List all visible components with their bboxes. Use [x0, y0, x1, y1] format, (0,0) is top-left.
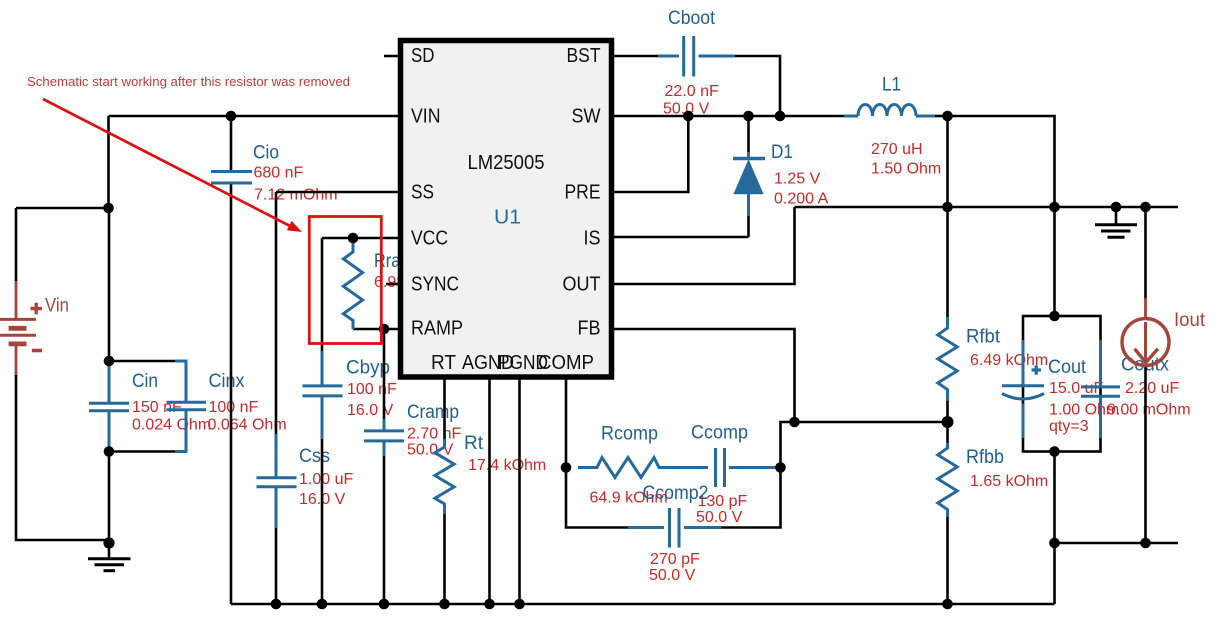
wire VCC horizontal: [322, 237, 400, 240]
svg-text:SD: SD: [411, 45, 435, 67]
node comp right: [775, 462, 786, 473]
svg-text:1.50 Ohm: 1.50 Ohm: [871, 161, 941, 178]
battery plus sign: [31, 303, 43, 314]
node Cin top: [104, 356, 115, 367]
wire ground rail: [231, 603, 1055, 606]
wire RT pin riser: [443, 377, 446, 441]
current source Iout symbol: [1122, 298, 1169, 366]
node SW/D1: [743, 111, 754, 122]
svg-text:BST: BST: [567, 45, 601, 67]
node Vout/Iout: [1140, 202, 1151, 213]
wire divider top: [946, 116, 949, 319]
capacitor Ccomp plates: [716, 448, 725, 487]
battery lead bottom: [15, 346, 18, 375]
capacitor Css plates: [257, 478, 297, 487]
wire FB pin jog: [610, 329, 795, 422]
capacitor Cin leads: [108, 361, 111, 452]
capacitor Ccomp2 plates: [670, 508, 680, 548]
capacitor Cinx plates: [167, 402, 207, 410]
svg-text:qty=3: qty=3: [1049, 418, 1089, 435]
node COMP: [561, 462, 572, 473]
wire Cinx top link: [109, 360, 177, 363]
node FB jog: [789, 417, 800, 428]
wire Css riser upper: [275, 192, 278, 436]
svg-text:Cramp: Cramp: [407, 402, 459, 423]
wire divider mid upper: [946, 399, 949, 423]
svg-text:50.0 V: 50.0 V: [407, 442, 454, 459]
wire Cin lower vertical: [108, 451, 111, 544]
svg-text:22.0 nF: 22.0 nF: [665, 83, 719, 100]
Iout lead top: [1144, 298, 1147, 318]
svg-text:50.0 V: 50.0 V: [696, 509, 743, 526]
capacitor bank box outline: [1023, 316, 1101, 452]
svg-text:Rcomp: Rcomp: [601, 424, 658, 445]
diode D1 cathode bar: [733, 157, 765, 160]
pin stub SYNC: [386, 283, 400, 286]
svg-text:1.00 uF: 1.00 uF: [299, 471, 353, 488]
svg-text:SS: SS: [411, 182, 434, 204]
capacitor Cboot plates: [684, 36, 694, 77]
svg-text:9.00 mOhm: 9.00 mOhm: [1107, 402, 1191, 419]
diode D1 blue leads: [747, 152, 750, 216]
inductor L1: [844, 105, 935, 116]
svg-text:16.0 V: 16.0 V: [347, 402, 394, 419]
svg-text:COMP: COMP: [538, 352, 594, 374]
svg-text:0.024 Ohm: 0.024 Ohm: [132, 417, 211, 434]
resistor Rramp: [343, 238, 362, 329]
capacitor Cramp plates: [364, 431, 404, 441]
wire L1 right to output node: [933, 115, 948, 118]
svg-text:2.20 uF: 2.20 uF: [1125, 380, 1179, 397]
svg-text:17.4 kOhm: 17.4 kOhm: [468, 457, 546, 474]
node battery top: [103, 203, 114, 214]
svg-text:RAMP: RAMP: [411, 318, 463, 340]
capacitor Cio: [211, 172, 252, 184]
svg-text:50.0 V: 50.0 V: [649, 567, 696, 584]
node Cio/VIN: [226, 111, 237, 122]
resistor Rt: [435, 439, 454, 514]
node rail Css: [271, 599, 282, 610]
svg-text:100 nF: 100 nF: [209, 399, 259, 416]
svg-text:0.200 A: 0.200 A: [774, 191, 829, 208]
node gnd2 left: [1049, 538, 1060, 549]
wire RAMP horizontal: [353, 328, 400, 331]
wire VIN left riser: [107, 116, 110, 208]
wire AGND pin riser: [488, 377, 491, 604]
svg-text:Css: Css: [299, 446, 330, 467]
wire Cio riser upper: [230, 116, 233, 172]
ground symbol right: [1095, 225, 1137, 238]
svg-text:IS: IS: [584, 228, 601, 250]
capacitor Cout leads: [1022, 340, 1025, 438]
svg-text:FB: FB: [578, 318, 601, 340]
svg-text:1.65 kOhm: 1.65 kOhm: [970, 473, 1048, 490]
node Vout/Cout: [1049, 202, 1060, 213]
wire Rt lower to rail: [443, 513, 446, 604]
node rail AGND: [484, 599, 495, 610]
capacitor Coutx plates: [1081, 387, 1120, 396]
ground symbol left: [88, 543, 131, 571]
node FB divider: [942, 416, 954, 428]
svg-text:D1: D1: [771, 142, 793, 163]
svg-text:Cboot: Cboot: [668, 8, 716, 29]
node RAMP/Cramp: [379, 324, 390, 335]
wire SW horizontal: [610, 115, 846, 118]
resistor Rcomp: [578, 458, 708, 478]
svg-text:OUT: OUT: [563, 274, 601, 296]
svg-text:270 pF: 270 pF: [650, 551, 700, 568]
capacitor Css leads: [275, 434, 278, 528]
svg-text:Rfbb: Rfbb: [966, 447, 1004, 468]
svg-text:Iout: Iout: [1174, 310, 1206, 331]
wire divider mid lower: [946, 422, 949, 445]
svg-text:VIN: VIN: [411, 106, 441, 128]
node Vout/gnd: [1111, 202, 1122, 213]
node rail Cramp: [379, 599, 390, 610]
node Cin bottom: [104, 446, 115, 457]
op-amp/regulator U1 body: [401, 41, 612, 378]
node SW/PRE: [683, 111, 694, 122]
wire COMP pin riser: [565, 377, 568, 468]
wire input node vertical: [108, 208, 111, 362]
svg-text:Cin: Cin: [132, 371, 158, 392]
pin stub SD: [384, 55, 400, 58]
capacitor Cbyp plates: [303, 386, 343, 396]
svg-text:L1: L1: [882, 75, 901, 96]
node SW/Cboot: [775, 111, 786, 122]
wire comp lower branch right: [719, 468, 781, 528]
svg-text:Ccomp2: Ccomp2: [643, 483, 709, 504]
svg-text:Rt: Rt: [464, 433, 484, 454]
wire PRE jog: [610, 116, 688, 192]
svg-text:100 nF: 100 nF: [347, 381, 397, 398]
wire BST stub from IC: [610, 55, 660, 58]
svg-text:Schematic start working after: Schematic start working after this resis…: [27, 74, 350, 89]
capacitor Cbyp leads: [321, 351, 324, 439]
diode D1 triangle: [735, 161, 763, 194]
node VCC/Rramp: [348, 233, 359, 244]
annotation box around Rramp: [309, 217, 381, 344]
wire PGND pin riser: [518, 377, 521, 604]
resistor Rfbt: [938, 317, 957, 401]
battery plate short 2: [9, 341, 27, 346]
svg-text:Vin: Vin: [45, 296, 69, 317]
wire divider bottom: [946, 515, 949, 604]
svg-text:Rfbt: Rfbt: [966, 327, 1001, 348]
node Vout/divider: [942, 202, 953, 213]
node rail Rt: [439, 599, 450, 610]
wire Iout upper: [1144, 207, 1147, 300]
annotation arrow head: [287, 221, 302, 232]
wire Cramp riser upper: [383, 329, 386, 421]
node input ground: [103, 537, 114, 548]
battery Vin symbol: [0, 281, 42, 375]
wire lower gnd horizontal: [1055, 542, 1179, 545]
svg-text:1.25 V: 1.25 V: [774, 171, 821, 188]
Iout arrow head: [1135, 349, 1158, 363]
svg-text:680 nF: 680 nF: [254, 165, 304, 182]
wire Cinx bottom link: [109, 450, 177, 453]
wire Cbyp riser lower: [321, 438, 324, 604]
wire Cio riser lower to rail: [230, 183, 233, 605]
battery plate long 1: [0, 318, 36, 321]
capacitor Cboot left lead: [658, 55, 679, 58]
Iout arrow shaft: [1144, 322, 1147, 361]
wire Css riser lower: [275, 527, 278, 604]
wire D1 upper lead: [747, 116, 750, 153]
capacitor Cin plates: [89, 403, 129, 411]
svg-text:VCC: VCC: [411, 228, 448, 250]
capacitor Coutx leads: [1099, 340, 1102, 438]
wire Iout lower: [1144, 366, 1147, 543]
wire rail riser right: [1053, 543, 1056, 604]
wire comp lower branch left: [566, 468, 630, 528]
capacitor Cout curved plate: [1002, 394, 1044, 400]
resistor Rfbb: [938, 443, 957, 517]
svg-text:270 uH: 270 uH: [871, 141, 923, 158]
node Cout box bottom: [1049, 446, 1060, 457]
capacitor Cinx branch: [175, 361, 186, 452]
battery lead top: [15, 281, 18, 318]
wire to battery top: [16, 208, 109, 283]
node rail PGND: [514, 599, 525, 610]
annotation arrow line: [43, 99, 290, 226]
svg-text:SYNC: SYNC: [411, 274, 459, 296]
svg-text:Ccomp: Ccomp: [691, 423, 748, 444]
wire Cramp riser lower: [383, 455, 386, 604]
wire Vout horizontal: [795, 206, 1179, 209]
wire FB node horizontal: [795, 421, 948, 424]
wire Cbyp riser upper: [321, 238, 324, 353]
svg-text:Cio: Cio: [253, 143, 279, 164]
wire Cout box drop: [1053, 452, 1056, 544]
wire VIN horizontal: [109, 115, 401, 118]
svg-text:RT: RT: [431, 352, 456, 374]
svg-text:PRE: PRE: [565, 182, 601, 204]
Iout circle: [1122, 319, 1169, 366]
node SW/L1 out: [942, 111, 953, 122]
node rail Rfbb: [942, 599, 953, 610]
wire battery bottom to ground run: [16, 374, 109, 540]
wire comp right node to FB jog: [781, 422, 795, 468]
battery plate long 2: [0, 334, 36, 337]
wire IS horizontal: [610, 236, 749, 239]
node gnd2 Iout: [1140, 538, 1151, 549]
node Cout box top: [1049, 311, 1060, 322]
svg-text:Cout: Cout: [1048, 357, 1087, 378]
wire Cboot right to SW riser: [733, 56, 780, 116]
battery plate short 1: [9, 326, 27, 331]
wire right gnd stub: [1115, 207, 1118, 224]
capacitor Ccomp2 leads: [628, 526, 721, 529]
wire OUT jog: [610, 207, 795, 284]
capacitor Cboot right lead: [699, 55, 736, 58]
svg-text:Cinx: Cinx: [209, 371, 245, 392]
capacitor Cout plus sign: [1032, 365, 1042, 375]
svg-text:LM25005: LM25005: [468, 152, 545, 174]
capacitor Cramp leads: [383, 419, 386, 456]
svg-text:U1: U1: [494, 207, 521, 229]
svg-text:7.12 mOhm: 7.12 mOhm: [254, 187, 338, 204]
wire SS horizontal: [276, 191, 400, 194]
svg-text:2.70 nF: 2.70 nF: [407, 426, 461, 443]
capacitor Cout top plate: [1002, 384, 1044, 387]
capacitor Ccomp right lead: [729, 466, 778, 469]
wire D1 lower lead: [747, 215, 750, 237]
svg-text:SW: SW: [572, 106, 601, 128]
battery minus sign: [32, 349, 42, 353]
wire output top loop: [948, 116, 1055, 316]
node rail Cbyp: [317, 599, 328, 610]
svg-text:15.0 uF: 15.0 uF: [1049, 380, 1103, 397]
